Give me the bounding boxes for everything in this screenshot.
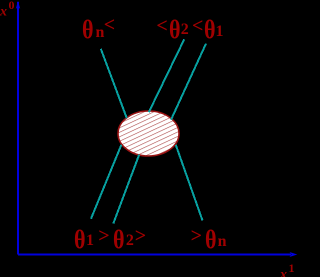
label < theta_2 (top middle) (156, 16, 167, 36)
axis x0 (vertical) (17, 2, 19, 255)
label < theta_1 (top right) (192, 16, 203, 36)
axis x1 (horizontal) (18, 254, 291, 256)
label theta_2 > (bottom middle) (113, 227, 125, 253)
arrowhead of x1 axis (290, 252, 298, 257)
label x0 on vertical axis (0, 0, 15, 20)
wire: trajectory segment B incoming upper-right (171, 44, 206, 120)
scattering region ellipse (hatched) (118, 111, 179, 156)
label theta_n < (top left) (82, 17, 94, 43)
label > theta_n (bottom right) (191, 226, 202, 246)
label x1 on horizontal axis (280, 263, 295, 277)
label theta_1 > (bottom left) (74, 227, 86, 253)
wire: trajectory segment F outgoing lower-right (176, 145, 203, 221)
wire: trajectory segment E outgoing lower-middle (113, 155, 139, 224)
wire: trajectory segment A incoming upper-left (101, 49, 127, 118)
wire: trajectory segment D outgoing lower-left (91, 145, 121, 219)
wire: trajectory segment C incoming upper-middle (149, 39, 184, 112)
arrowhead of x0 axis (16, 1, 20, 10)
